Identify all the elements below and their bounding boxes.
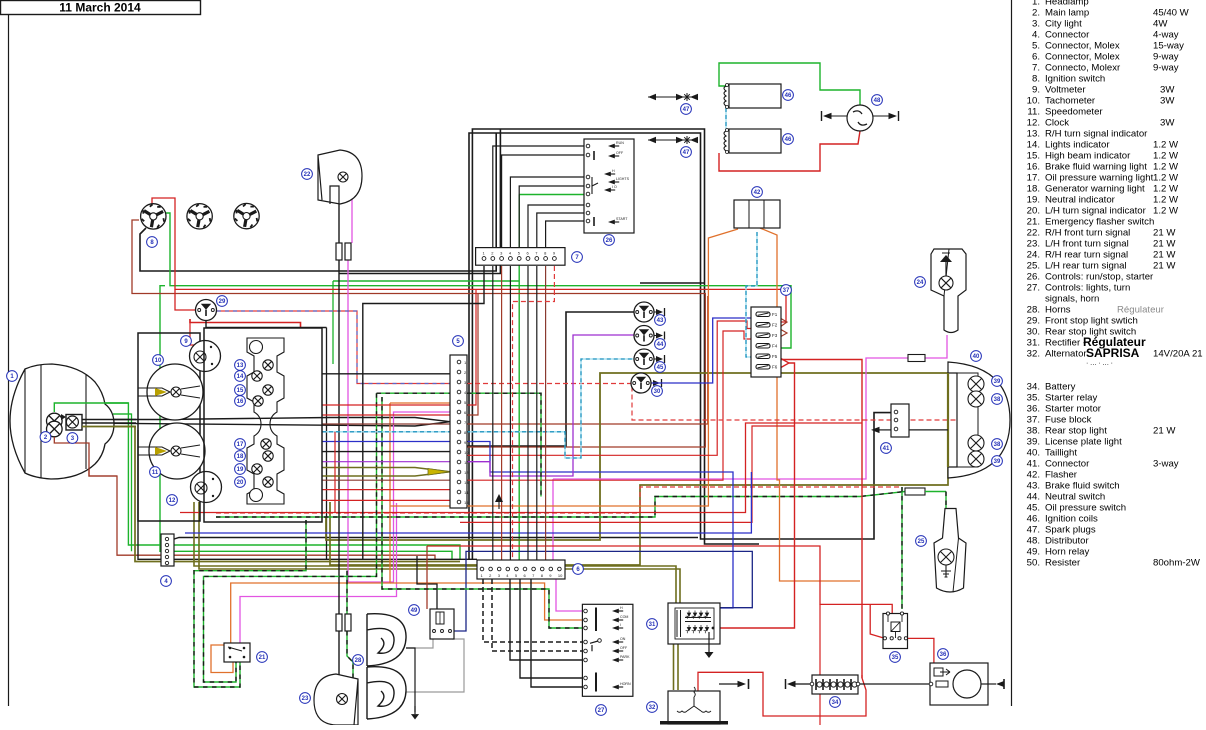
wire black horn relay top	[417, 556, 437, 609]
svg-text:L/H front turn signal: L/H front turn signal	[1045, 239, 1129, 250]
svg-text:Tachometer: Tachometer	[1045, 96, 1096, 107]
battery ground wire	[795, 683, 810, 685]
svg-text:21 W: 21 W	[1153, 239, 1176, 250]
svg-text:46: 46	[785, 93, 792, 99]
emergency flasher switch 21	[224, 643, 250, 662]
svg-text:21 W: 21 W	[1153, 228, 1176, 239]
svg-text:Emergency flasher switch: Emergency flasher switch	[1045, 217, 1154, 228]
svg-text:Rear stop light: Rear stop light	[1045, 426, 1107, 437]
wire navy horn relay to rectifier	[452, 551, 752, 631]
distributor 48	[847, 105, 873, 131]
svg-text:13: 13	[464, 480, 469, 485]
svg-text:3-way: 3-way	[1153, 459, 1179, 470]
svg-text:R/H front turn signal: R/H front turn signal	[1045, 228, 1130, 239]
svg-text:5.: 5.	[1032, 41, 1040, 52]
flasher 42	[734, 200, 780, 228]
svg-text:16.: 16.	[1027, 162, 1040, 173]
svg-text:28.: 28.	[1027, 305, 1040, 316]
svg-text:37.: 37.	[1027, 415, 1040, 426]
svg-text:47: 47	[683, 107, 690, 113]
svg-text:Resister: Resister	[1045, 558, 1081, 569]
svg-text:50.: 50.	[1027, 558, 1040, 569]
svg-text:Fuse block: Fuse block	[1045, 415, 1092, 426]
starter relay 35	[883, 614, 908, 649]
svg-text:24: 24	[917, 280, 924, 286]
wire black main bus from ignition switch	[140, 133, 496, 271]
svg-text:21 W: 21 W	[1153, 250, 1176, 261]
wire magenta to flasher switch	[240, 503, 397, 644]
svg-text:42.: 42.	[1027, 470, 1040, 481]
svg-text:43: 43	[657, 318, 664, 324]
svg-text:14V/20A 21: 14V/20A 21	[1153, 349, 1203, 360]
svg-text:3W: 3W	[1160, 118, 1175, 129]
inline fuse magenta	[908, 355, 925, 362]
wire olive headlamp drop	[82, 427, 460, 562]
horn relay 49	[430, 609, 454, 639]
svg-text:RUN: RUN	[616, 141, 624, 145]
svg-text:40: 40	[973, 354, 980, 360]
wire brown second	[467, 296, 708, 424]
svg-text:Connector: Connector	[1045, 459, 1090, 470]
svg-text:Spark plugs: Spark plugs	[1045, 525, 1096, 536]
svg-text:H: H	[620, 606, 623, 610]
svg-text:27: 27	[598, 708, 605, 714]
switch ground arrows	[652, 311, 657, 313]
svg-text:3W: 3W	[1160, 96, 1175, 107]
connector 5	[450, 355, 467, 508]
svg-text:Taillight: Taillight	[1045, 448, 1077, 459]
svg-text:34: 34	[832, 700, 839, 706]
wire red-blue dash front stop switch to conn5	[217, 311, 459, 384]
svg-text:Clock: Clock	[1045, 118, 1069, 129]
wire magenta long mid	[553, 335, 947, 479]
svg-text:19: 19	[237, 467, 244, 473]
svg-text:1.: 1.	[1032, 0, 1040, 8]
wire magenta conn6 to box27	[552, 479, 554, 560]
svg-text:29: 29	[219, 299, 226, 305]
svg-text:23: 23	[302, 696, 309, 702]
svg-text:9-way: 9-way	[1153, 52, 1179, 63]
svg-text:13: 13	[237, 363, 244, 369]
svg-text:14: 14	[237, 374, 244, 380]
svg-text:12.: 12.	[1027, 118, 1040, 129]
wire green coil to distributor	[719, 63, 860, 105]
svg-text:3W: 3W	[1160, 85, 1175, 96]
svg-text:39: 39	[994, 379, 1001, 385]
wire green branch to conn6	[160, 286, 452, 560]
svg-text:14: 14	[464, 490, 469, 495]
svg-text:License plate light: License plate light	[1045, 437, 1122, 448]
svg-text:30.: 30.	[1027, 327, 1040, 338]
svg-text:L/H rear turn signal: L/H rear turn signal	[1045, 261, 1127, 272]
wire green dash conn5 pin4	[377, 392, 460, 394]
olive pair rectifier to alternator	[673, 645, 675, 691]
frame left border	[8, 14, 10, 706]
svg-text:15.: 15.	[1027, 151, 1040, 162]
svg-text:20.: 20.	[1027, 206, 1040, 217]
svg-text:1.2 W: 1.2 W	[1153, 206, 1179, 217]
svg-text:Régulateur: Régulateur	[1117, 305, 1165, 316]
svg-text:40.: 40.	[1027, 448, 1040, 459]
svg-text:17: 17	[237, 442, 244, 448]
taillight 40	[948, 362, 1010, 478]
horns 28	[367, 614, 406, 666]
svg-text:36.: 36.	[1027, 404, 1040, 415]
wire black from RH front turn signal	[338, 204, 340, 243]
svg-text:48.: 48.	[1027, 536, 1040, 547]
battery 34	[812, 675, 858, 694]
fuses above 23	[336, 614, 342, 631]
svg-text:Alternator: Alternator	[1045, 349, 1087, 360]
legend divider	[1011, 0, 1013, 706]
svg-text:Front stop light swtich: Front stop light swtich	[1045, 316, 1138, 327]
svg-text:31.: 31.	[1027, 338, 1040, 349]
wire red to front stop switch	[175, 289, 195, 310]
svg-text:10: 10	[464, 450, 469, 455]
headlamp interior wires redraw	[54, 403, 128, 412]
svg-text:F4: F4	[772, 344, 778, 349]
spark plug 47b	[648, 139, 696, 141]
svg-text:14.: 14.	[1027, 140, 1040, 151]
svg-text:11.: 11.	[1027, 107, 1040, 118]
panel plain circles	[250, 341, 263, 354]
svg-text:1.2 W: 1.2 W	[1153, 184, 1179, 195]
svg-text:Battery: Battery	[1045, 382, 1076, 393]
svg-text:OFF: OFF	[620, 646, 628, 650]
wire green headlamp to conn6	[54, 403, 460, 560]
svg-text:COM: COM	[620, 615, 628, 619]
svg-text:37: 37	[783, 288, 790, 294]
svg-text:21: 21	[259, 655, 266, 661]
wires panel to conn5 stubs	[322, 373, 459, 375]
indicator lamps 13-20	[263, 360, 273, 370]
svg-text:4W: 4W	[1153, 19, 1168, 30]
olive pair arrow merge into conn5	[322, 468, 459, 472]
svg-text:Voltmeter: Voltmeter	[1045, 85, 1086, 96]
svg-text:10: 10	[558, 573, 563, 578]
chassis arrow mid	[498, 497, 500, 509]
LH rear turn signal 25	[934, 509, 966, 593]
svg-text:R/H turn signal indicator: R/H turn signal indicator	[1045, 129, 1148, 140]
svg-text:High beam indicator: High beam indicator	[1045, 151, 1131, 162]
svg-text:ON: ON	[620, 637, 626, 641]
wire black bundle 559	[138, 430, 477, 559]
svg-text:HORN: HORN	[620, 682, 631, 686]
svg-text:1.2 W: 1.2 W	[1153, 140, 1179, 151]
wire green dash to fuse t23	[346, 571, 348, 614]
svg-text:23.: 23.	[1027, 239, 1040, 250]
wire red vertical mid-left	[334, 432, 336, 513]
svg-text:3.: 3.	[1032, 19, 1040, 30]
svg-text:15: 15	[237, 388, 244, 394]
battery to starter black	[860, 683, 929, 685]
svg-text:Brake fluid warning light: Brake fluid warning light	[1045, 162, 1147, 173]
wire darkred horn relay top	[426, 546, 428, 609]
svg-text:42: 42	[754, 190, 761, 196]
wire red to fuse F2 F3	[467, 321, 752, 455]
connector 4	[161, 534, 174, 566]
wire red gauge feeds	[190, 319, 199, 350]
svg-text:15-way: 15-way	[1153, 41, 1184, 52]
svg-text:2.: 2.	[1032, 8, 1040, 19]
svg-text:80ohm-2W: 80ohm-2W	[1153, 558, 1201, 569]
switch circle c	[234, 203, 259, 228]
wire red main bus	[152, 198, 786, 322]
svg-text:39: 39	[994, 459, 1001, 465]
inline connectors on headlamp pair	[103, 417, 113, 422]
svg-text:36: 36	[940, 652, 947, 658]
neutral switch 44	[634, 326, 654, 346]
gauges box	[138, 333, 200, 521]
svg-text:18.: 18.	[1027, 184, 1040, 195]
svg-text:44: 44	[657, 342, 664, 348]
svg-text:F6: F6	[772, 365, 778, 370]
svg-text:35.: 35.	[1027, 393, 1040, 404]
connector 41	[891, 404, 909, 437]
svg-text:16: 16	[237, 399, 244, 405]
svg-text:46.: 46.	[1027, 514, 1040, 525]
RH rear turn signal 24	[931, 249, 966, 333]
main lamp 2	[47, 413, 63, 429]
svg-text:F1: F1	[772, 312, 778, 317]
svg-text:H: H	[612, 169, 615, 173]
controls box 26	[584, 139, 634, 233]
svg-text:Connector: Connector	[1045, 30, 1090, 41]
wire red bundle mid	[180, 423, 862, 513]
wires box26 to conn7	[493, 146, 586, 247]
controls box 27	[582, 604, 633, 696]
clock 12	[191, 472, 222, 503]
svg-text:Starter relay: Starter relay	[1045, 393, 1097, 404]
wire purple to switch 44	[459, 335, 635, 476]
svg-text:35: 35	[892, 655, 899, 661]
svg-text:34.: 34.	[1027, 382, 1040, 393]
svg-text:Ignition switch: Ignition switch	[1045, 74, 1105, 85]
horn ground	[406, 648, 415, 712]
wires conn6 drop to box27	[483, 579, 583, 642]
svg-text:Neutral switch: Neutral switch	[1045, 492, 1105, 503]
svg-text:10: 10	[155, 358, 162, 364]
svg-text:11 March 2014: 11 March 2014	[59, 1, 141, 15]
svg-text:29.: 29.	[1027, 316, 1040, 327]
wire blue long	[185, 472, 751, 533]
svg-text:38: 38	[994, 397, 1001, 403]
svg-text:Horns: Horns	[1045, 305, 1071, 316]
wire gray horn to relay	[406, 639, 433, 648]
ignition switch 8	[141, 204, 166, 229]
svg-text:PARK: PARK	[620, 655, 630, 659]
panel inner molding	[247, 338, 284, 504]
svg-text:F5: F5	[772, 354, 778, 359]
svg-text:12: 12	[169, 498, 176, 504]
svg-text:21.: 21.	[1027, 217, 1040, 228]
svg-text:6.: 6.	[1032, 52, 1040, 63]
svg-text:L/H turn signal indicator: L/H turn signal indicator	[1045, 206, 1147, 217]
svg-text:9.: 9.	[1032, 85, 1040, 96]
resistor inline green dash	[905, 488, 925, 495]
wire green bus to controls box	[333, 280, 519, 282]
svg-text:Controls: run/stop, starter: Controls: run/stop, starter	[1045, 272, 1154, 283]
wire cyan to switch 45	[459, 359, 635, 458]
svg-text:24.: 24.	[1027, 250, 1040, 261]
wire red stop switch to panel	[190, 319, 301, 328]
wire red battery loop	[698, 672, 866, 716]
title box date	[1, 1, 201, 15]
wire red to starter relay left	[870, 604, 885, 638]
connector 7	[476, 248, 565, 266]
svg-text:START: START	[616, 217, 628, 221]
wire black bus frame pair	[472, 129, 759, 560]
svg-text:10.: 10.	[1027, 96, 1040, 107]
svg-text:8.: 8.	[1032, 74, 1040, 85]
wire red coil to distributor	[719, 131, 860, 171]
svg-text:Flasher: Flasher	[1045, 470, 1078, 481]
wire headlamp black pair to conn5 arrow	[82, 418, 459, 422]
svg-text:1.2 W: 1.2 W	[1153, 195, 1179, 206]
svg-text:31: 31	[649, 622, 656, 628]
svg-text:Headlamp: Headlamp	[1045, 0, 1089, 8]
svg-text:F3: F3	[772, 333, 778, 338]
headlamp 1 assembly	[10, 364, 114, 479]
voltmeter 9	[190, 341, 221, 372]
svg-text:15: 15	[464, 500, 469, 505]
svg-text:Speedometer: Speedometer	[1045, 107, 1103, 118]
svg-text:47: 47	[683, 150, 690, 156]
svg-text:Oil pressure switch: Oil pressure switch	[1045, 503, 1126, 514]
svg-text:46: 46	[785, 137, 792, 143]
conn7 vertical drops	[363, 266, 484, 559]
svg-text:R/H rear turn signal: R/H rear turn signal	[1045, 250, 1128, 261]
svg-text:26.: 26.	[1027, 272, 1040, 283]
svg-text:Horn relay: Horn relay	[1045, 547, 1089, 558]
svg-text:21 W: 21 W	[1153, 426, 1176, 437]
wire cyan between coils	[725, 108, 727, 130]
svg-text:38.: 38.	[1027, 426, 1040, 437]
fuse hooks right side	[780, 318, 787, 327]
svg-text:32.: 32.	[1027, 349, 1040, 360]
svg-text:Connector, Molex: Connector, Molex	[1045, 52, 1120, 63]
wire black to LH front turn 23	[338, 274, 340, 615]
svg-text:39.: 39.	[1027, 437, 1040, 448]
wire red horn relay area to starter relay	[427, 546, 892, 614]
svg-text:Controls: lights, turn: Controls: lights, turn	[1045, 283, 1130, 294]
starter motor arrow small	[940, 669, 950, 675]
svg-text:11: 11	[152, 470, 159, 476]
svg-text:·…·…·: ·…·…·	[1086, 360, 1115, 367]
svg-text:I: I	[620, 623, 621, 627]
svg-text:41.: 41.	[1027, 459, 1040, 470]
svg-text:38: 38	[994, 442, 1001, 448]
svg-text:Ignition coils: Ignition coils	[1045, 514, 1098, 525]
svg-text:26: 26	[606, 238, 613, 244]
wire red dash rear stop to taillight	[467, 384, 976, 421]
wire red fuse to battery	[780, 360, 862, 679]
wire magenta RH front turn signal	[347, 177, 352, 243]
svg-text:Connector, Molex: Connector, Molex	[1045, 41, 1120, 52]
svg-text:4-way: 4-way	[1153, 30, 1179, 41]
svg-text:45: 45	[657, 365, 664, 371]
svg-text:1.2 W: 1.2 W	[1153, 162, 1179, 173]
svg-text:LIGHTS: LIGHTS	[616, 177, 630, 181]
wire black bus to conn6 region	[640, 282, 704, 284]
wire green vert panel	[332, 281, 334, 364]
starter motor 36	[930, 663, 988, 705]
svg-text:30: 30	[654, 389, 661, 395]
wire blue conn5 to rectifier	[459, 442, 733, 609]
svg-text:Neutral indicator: Neutral indicator	[1045, 195, 1116, 206]
svg-text:1.2 W: 1.2 W	[1153, 151, 1179, 162]
svg-text:4.: 4.	[1032, 30, 1040, 41]
wire red starter relay to starter motor	[906, 638, 934, 663]
fuse block 37	[751, 307, 781, 377]
svg-text:Oil pressure warning light: Oil pressure warning light	[1045, 173, 1154, 184]
wire black stop switch to bundle	[206, 321, 327, 328]
svg-text:32: 32	[649, 705, 656, 711]
svg-text:OFF: OFF	[616, 151, 624, 155]
wire black conn4 long	[171, 538, 698, 541]
svg-text:19.: 19.	[1027, 195, 1040, 206]
wire headlamp red drop	[54, 437, 435, 560]
svg-text:43.: 43.	[1027, 481, 1040, 492]
wire orange flasher left leg	[390, 229, 738, 506]
svg-text:SAPRISA: SAPRISA	[1086, 346, 1140, 360]
svg-text:25.: 25.	[1027, 261, 1040, 272]
svg-text:49.: 49.	[1027, 547, 1040, 558]
svg-text:22.: 22.	[1027, 228, 1040, 239]
brake fluid switch 43	[634, 302, 654, 322]
wire black frame left branch	[467, 312, 635, 446]
wire green dash to rear turn 25	[925, 491, 946, 493]
wire black pair panel verticals	[326, 328, 328, 560]
svg-text:28: 28	[355, 658, 362, 664]
svg-text:45.: 45.	[1027, 503, 1040, 514]
connector 6	[477, 560, 565, 579]
svg-text:20: 20	[237, 480, 244, 486]
wire orange flasher right leg	[760, 228, 860, 581]
svg-text:12: 12	[464, 470, 469, 475]
ignition coil 46a	[729, 84, 781, 108]
tachometer 10	[147, 364, 203, 420]
wire red dash bundle	[216, 487, 902, 513]
svg-text:45/40 W: 45/40 W	[1153, 8, 1190, 19]
svg-text:48: 48	[874, 98, 881, 104]
conn7 reddash vertical	[513, 266, 555, 560]
speedometer 11	[149, 423, 205, 479]
svg-text:9-way: 9-way	[1153, 63, 1179, 74]
wire green dash long with resistor	[216, 492, 905, 518]
indicator panel box	[204, 328, 322, 522]
oil pressure switch 45	[634, 349, 654, 369]
wire red rectifier to fuse block	[719, 363, 795, 628]
spark plug 47a	[648, 96, 696, 98]
ignition coil 46b	[729, 129, 781, 153]
svg-text:City light: City light	[1045, 19, 1082, 30]
wire red drops from bus to conn5	[459, 289, 476, 405]
wire orange conn5 to emergency switch and box27	[390, 402, 459, 404]
wire green ignition to fuse block	[164, 213, 791, 348]
LH front turn signal 23	[314, 674, 358, 725]
svg-text:18: 18	[237, 454, 244, 460]
svg-text:17.: 17.	[1027, 173, 1040, 184]
wire cyan flasher to fuse block	[746, 232, 757, 357]
wire olive pair gauges to rectifier	[194, 502, 676, 603]
rectifier 31	[668, 603, 720, 644]
svg-text:F2: F2	[772, 323, 778, 328]
svg-text:Main lamp: Main lamp	[1045, 8, 1089, 19]
svg-text:49: 49	[411, 608, 418, 614]
wire brown bus	[132, 220, 705, 447]
svg-text:Lights indicator: Lights indicator	[1045, 140, 1110, 151]
